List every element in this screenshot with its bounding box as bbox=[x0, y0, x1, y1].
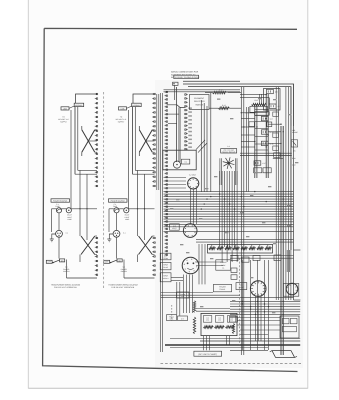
svg-text:SPKR: SPKR bbox=[163, 274, 168, 277]
terminal strip bbox=[95, 93, 97, 95]
wire rows below transformer bbox=[78, 169, 97, 171]
tube V-1 in shield box bbox=[163, 150, 196, 170]
resistor network box bbox=[201, 313, 237, 335]
wire receptacle to switch bbox=[116, 237, 118, 258]
wire cluster links bbox=[240, 97, 269, 99]
junction dots bottom mesh bbox=[242, 301, 243, 302]
svg-text:POWER: POWER bbox=[219, 286, 226, 289]
wire rows near bottom extra bbox=[230, 317, 280, 319]
svg-text:TRANSFORMER WIRING DIAGRAM: TRANSFORMER WIRING DIAGRAM bbox=[108, 284, 138, 287]
link label box bbox=[119, 107, 127, 110]
speaker plug box bbox=[160, 262, 171, 269]
wire main vertical between columns bbox=[176, 87, 178, 162]
wire bundle bottom horizontal bbox=[230, 300, 300, 302]
long vertical wires left spine bbox=[160, 93, 162, 352]
wire top rail 2 outer loop bbox=[183, 84, 294, 126]
capacitor C-8 bbox=[261, 116, 268, 120]
coil box bbox=[267, 122, 272, 127]
cluster junction dots bbox=[254, 112, 255, 113]
ground symbol bbox=[50, 234, 56, 242]
small box mid cluster bbox=[249, 122, 254, 127]
long vertical wires bottom area bbox=[241, 260, 243, 350]
wire rows lower right mesh bbox=[237, 320, 280, 322]
ground symbol bbox=[107, 234, 113, 242]
junction dots fuse row bbox=[79, 208, 80, 209]
wire rows below transformer bbox=[135, 169, 154, 171]
wire vertical secondary bbox=[134, 107, 136, 171]
wire short rows left strip bbox=[167, 113, 179, 115]
selector bundle extensions down bbox=[221, 247, 223, 262]
power source label box bbox=[51, 199, 70, 202]
svg-text:FOR 230 VOLT OPERATION.: FOR 230 VOLT OPERATION. bbox=[111, 286, 135, 289]
filament selector switch label bbox=[190, 95, 210, 110]
capacitor C-15 bbox=[261, 130, 268, 134]
pilot lamp bbox=[124, 208, 129, 213]
pilot lamp bbox=[66, 208, 71, 213]
power transformer label bbox=[213, 284, 231, 291]
small boxes under divider bbox=[231, 268, 237, 273]
page scan left edge bbox=[27, 0, 29, 389]
wire bundle horizontal center bbox=[164, 191, 294, 193]
terminal strip lower part bbox=[95, 237, 97, 239]
wire bottom connections bbox=[123, 260, 125, 279]
wire vertical main bbox=[74, 107, 76, 175]
crystal detector CR-1 bbox=[173, 82, 178, 85]
link label box bbox=[61, 107, 69, 110]
vertical wires between block2 and strip bbox=[156, 94, 158, 190]
terminal labels right column bbox=[188, 107, 192, 109]
wire from CR-1 down bbox=[174, 85, 176, 100]
capacitor C-16 bbox=[261, 141, 268, 145]
wire top loop bbox=[133, 94, 155, 103]
svg-text:O.T.: O.T. bbox=[181, 317, 185, 320]
svg-text:FILAMENT: FILAMENT bbox=[194, 97, 205, 100]
wire bundle vertical right side bbox=[275, 87, 277, 300]
wire rows near bottom bbox=[161, 294, 240, 296]
svg-text:TRANSFORMER WIRING DIAGRAM: TRANSFORMER WIRING DIAGRAM bbox=[51, 284, 81, 287]
junction dots center bundle bbox=[219, 193, 220, 194]
svg-text:SUPPLY: SUPPLY bbox=[118, 121, 125, 124]
vertical resistor R-20 bbox=[193, 301, 195, 313]
IF transformer can outline bbox=[264, 89, 281, 111]
wire bundle vertical from selector bbox=[219, 171, 221, 247]
svg-text:V-3: V-3 bbox=[173, 225, 176, 228]
wire top rail 1 bbox=[183, 80, 240, 82]
svg-text:SWITCH: SWITCH bbox=[195, 103, 203, 106]
svg-text:(DC VOLTS CHART): (DC VOLTS CHART) bbox=[198, 353, 217, 356]
wire rows below top rails bbox=[164, 89, 241, 91]
wire row single bbox=[164, 231, 294, 233]
switch position label NORMAL bbox=[132, 103, 142, 106]
vertical wires left of network bbox=[176, 282, 178, 315]
wire jog row bbox=[167, 105, 186, 108]
transformer wiring diagram block (230 V) bbox=[104, 93, 155, 289]
wire verticals 246-249 bbox=[245, 107, 247, 192]
svg-text:PHONO: PHONO bbox=[220, 261, 227, 264]
transformer winding cross lower bbox=[139, 236, 153, 255]
svg-text:R-13: R-13 bbox=[255, 99, 259, 102]
resistor divider chain row bbox=[209, 247, 216, 249]
svg-text:POWER SOURCE: POWER SOURCE bbox=[111, 200, 126, 203]
cluster horizontal connectors bbox=[241, 112, 255, 114]
svg-text:FOR 115 VOLT OPERATION.: FOR 115 VOLT OPERATION. bbox=[54, 286, 78, 289]
wire verticals transformer to lower cross bbox=[137, 170, 139, 236]
wire fuse row bbox=[109, 208, 114, 210]
svg-text:C-17: C-17 bbox=[262, 162, 266, 165]
dashed separator between blocks bbox=[103, 92, 105, 289]
svg-text:C-15: C-15 bbox=[270, 131, 274, 134]
tube V-5 output bbox=[250, 281, 266, 297]
wire rows 239-242 bbox=[196, 239, 293, 241]
wires V-4 to speaker boxes bbox=[171, 277, 183, 279]
voltage chart label box bbox=[194, 351, 222, 356]
wire row above network bbox=[196, 310, 230, 312]
capacitor C-9 bbox=[267, 89, 274, 93]
switch ON label bbox=[117, 259, 122, 262]
selector switch starburst bbox=[230, 163, 235, 164]
oscillator coil heavy verticals bbox=[254, 104, 256, 178]
wire pair between columns bbox=[178, 107, 180, 162]
svg-text:NORMAL: NORMAL bbox=[133, 104, 141, 107]
wire fuse row bbox=[52, 208, 57, 210]
dashed shield line bbox=[171, 305, 173, 321]
chassis dashed boundary bottom bbox=[161, 362, 302, 364]
oscillator diagonal wire bbox=[196, 140, 205, 150]
tube V-3 bbox=[170, 224, 180, 230]
trimmer box row bbox=[255, 112, 270, 116]
wire left strip connectors bbox=[164, 177, 187, 179]
selector surround wires bbox=[219, 158, 221, 185]
svg-text:C-8: C-8 bbox=[270, 118, 273, 121]
output trans box bbox=[178, 316, 188, 321]
AC receptacle A-1 bbox=[56, 230, 63, 237]
svg-text:PLUG: PLUG bbox=[163, 266, 168, 269]
transformer winding cross upper bbox=[139, 130, 152, 152]
wire vertical from link box bbox=[128, 110, 130, 209]
switch dashed box right bbox=[291, 140, 297, 147]
svg-text:POWER SOURCE: POWER SOURCE bbox=[53, 200, 68, 203]
left bottom small component bbox=[230, 317, 238, 323]
svg-text:V-1: V-1 bbox=[184, 161, 187, 164]
svg-text:AERIAL CONNECTIONS FOR: AERIAL CONNECTIONS FOR bbox=[171, 71, 199, 74]
small box above field coil bbox=[177, 292, 190, 298]
switch OFF label bbox=[104, 260, 110, 263]
resistor row in network bbox=[204, 326, 214, 328]
page scan right edge bbox=[307, 0, 309, 389]
terminal strip main left column bbox=[165, 91, 167, 93]
switch S-1 lever bbox=[53, 260, 60, 263]
AC receptacle A-1 bbox=[113, 230, 120, 237]
wire rows lower center bbox=[164, 221, 294, 223]
speaker cone outline bbox=[272, 351, 295, 358]
svg-text:J-1: J-1 bbox=[222, 266, 224, 269]
terminal strip main right column bbox=[186, 94, 188, 96]
bold bottom bus wire bbox=[165, 344, 300, 346]
terminal strip lower part bbox=[152, 237, 154, 239]
wire right short stubs bbox=[294, 249, 301, 251]
switch S-1 lever bbox=[111, 260, 118, 263]
tube V-4 bbox=[182, 257, 199, 274]
svg-text:V-2 6SA7: V-2 6SA7 bbox=[189, 174, 196, 177]
svg-text:C-16: C-16 bbox=[270, 142, 274, 145]
wire receptacle to switch bbox=[58, 237, 60, 258]
right stub verticals bbox=[286, 250, 288, 272]
page scan bottom edge bbox=[28, 387, 308, 389]
cluster wires top bbox=[240, 94, 267, 96]
field coil box bbox=[167, 315, 177, 321]
transformer wiring diagram block (115 V) bbox=[46, 93, 97, 289]
wire link to normal bbox=[69, 106, 74, 108]
component cluster bottom bbox=[254, 161, 261, 165]
tube V-6 rectifier bbox=[286, 283, 298, 295]
svg-text:NORMAL: NORMAL bbox=[75, 104, 83, 107]
wire right edge verticals bbox=[293, 126, 295, 300]
speaker terminal box bbox=[160, 253, 171, 260]
svg-text:OFF: OFF bbox=[48, 261, 51, 264]
wire bottom connections bbox=[66, 260, 68, 279]
terminal strip bbox=[152, 93, 154, 95]
dash-dot chassis vertical bbox=[239, 258, 241, 345]
wire verticals top middle bbox=[200, 100, 202, 192]
wires above power trans bbox=[198, 244, 200, 284]
svg-text:OFF: OFF bbox=[105, 261, 108, 264]
switch OFF label bbox=[46, 260, 52, 263]
capacitor C-7 bbox=[269, 104, 276, 108]
verticals below V-5 tube bbox=[255, 296, 257, 341]
main schematic bbox=[157, 71, 301, 364]
wire vertical secondary bbox=[77, 107, 79, 171]
wires below V-4 bbox=[183, 275, 185, 314]
switch ON label bbox=[60, 259, 65, 262]
power source label box bbox=[109, 199, 128, 202]
component box left of cluster bbox=[250, 106, 267, 112]
vertical resistor R-21 bbox=[193, 317, 195, 334]
svg-text:SUPPLY: SUPPLY bbox=[60, 121, 67, 124]
wire top rail 3 inner loop bbox=[188, 87, 291, 126]
cluster wires right links bbox=[268, 123, 281, 125]
svg-text:SPKR: SPKR bbox=[163, 264, 168, 267]
wires under divider bbox=[230, 255, 293, 257]
phono jack box bbox=[216, 260, 231, 270]
wire fuse to receptacle bbox=[58, 213, 60, 230]
scattered component value labels bbox=[205, 188, 208, 189]
verticals into network bottom bbox=[203, 336, 205, 351]
wire vertical main bbox=[132, 107, 134, 175]
right heavy verticals bbox=[280, 126, 282, 355]
svg-text:6SQ7: 6SQ7 bbox=[172, 227, 176, 230]
wire link to normal bbox=[127, 106, 132, 108]
svg-text:SELECTOR: SELECTOR bbox=[194, 100, 205, 103]
right bottom detail box bbox=[280, 316, 299, 338]
schematic border frame bbox=[43, 28, 298, 371]
transformer winding cross upper bbox=[82, 130, 95, 152]
wire rows mid-bottom bbox=[161, 292, 213, 294]
speaker socket box bbox=[160, 273, 171, 282]
extra small boxes cluster right bbox=[273, 112, 279, 116]
wire vertical from link box bbox=[70, 110, 72, 209]
junction dots fuse row bbox=[137, 208, 138, 209]
wire long verticals mid bbox=[240, 87, 242, 355]
wire fuse to receptacle bbox=[116, 213, 118, 230]
switch position label NORMAL bbox=[74, 103, 84, 106]
wire verticals below V-2 bbox=[190, 189, 192, 224]
svg-text:TRANS.: TRANS. bbox=[219, 288, 226, 291]
transformer winding cross lower bbox=[81, 236, 95, 255]
wire rows 347-350 bbox=[170, 347, 268, 349]
junction dots bottom bundle bbox=[242, 303, 243, 304]
wire verticals transformer to lower cross bbox=[79, 170, 81, 236]
wire top loop bbox=[76, 94, 98, 103]
